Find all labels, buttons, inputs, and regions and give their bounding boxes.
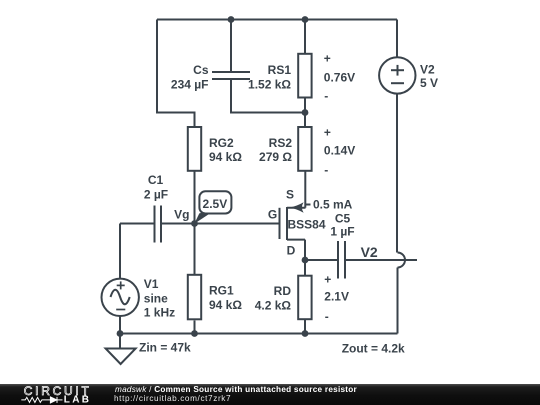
wire V1 bottom lead (119, 316, 121, 334)
resistor RG1 (188, 275, 201, 320)
svg-text:0.76V: 0.76V (324, 70, 355, 84)
resistor RG2 value label (209, 136, 242, 164)
capacitor Cs (212, 72, 250, 79)
wire V2 top lead (396, 20, 398, 58)
svg-text:2.5V: 2.5V (203, 197, 228, 211)
wire bottom rail (120, 333, 398, 335)
svg-text:5 V: 5 V (420, 76, 438, 90)
ground (106, 334, 136, 365)
resistor RG2 (188, 127, 201, 171)
node dot Vg (191, 220, 198, 227)
voltage annotation RS2 0.14V (324, 125, 355, 176)
resistor RS2 (298, 127, 311, 171)
wire top rail (157, 19, 397, 21)
node dot RS1 bottom (302, 109, 309, 116)
svg-text:V2: V2 (420, 63, 435, 77)
svg-text:2 µF: 2 µF (144, 188, 168, 202)
svg-text:RS1: RS1 (268, 63, 292, 77)
svg-text:2.1V: 2.1V (324, 290, 349, 304)
svg-text:LAB: LAB (64, 394, 91, 405)
svg-text:-: - (324, 89, 328, 103)
footer logo squiggle resistor and diode (21, 397, 62, 403)
svg-text:Zout = 4.2k: Zout = 4.2k (342, 341, 405, 355)
wire RS1 bottom lead (304, 98, 306, 113)
svg-text:RG2: RG2 (209, 136, 234, 150)
svg-text:RG1: RG1 (209, 284, 234, 298)
resistor RG1 value label (209, 284, 242, 312)
wire RG2 bottom lead to Vg (194, 171, 196, 224)
resistor RS1 value label (248, 63, 291, 92)
wire RS2 top lead (304, 113, 306, 128)
wire Cs bottom to RS2 top (231, 79, 305, 113)
transistor Q1 source arrow (290, 202, 304, 213)
capacitor C5 (338, 241, 345, 279)
svg-text:V1: V1 (144, 277, 159, 291)
svg-text:94 kΩ: 94 kΩ (209, 298, 242, 312)
resistor RD value label (255, 284, 292, 313)
node dot V1 bottom (117, 330, 124, 337)
node dot RD bottom (302, 330, 309, 337)
wire RS1 top lead (304, 20, 306, 55)
svg-text:S: S (286, 187, 294, 201)
wire RG1 top lead (194, 224, 196, 275)
svg-text:Vg: Vg (174, 207, 189, 221)
wire Vg to gate (161, 223, 279, 225)
svg-text:C1: C1 (148, 173, 164, 187)
svg-text:RS2: RS2 (269, 136, 293, 150)
voltage annotation RS1 0.76V (324, 52, 355, 103)
capacitor C5 value label (330, 211, 354, 238)
svg-text:+: + (324, 125, 331, 139)
capacitor Cs value label (171, 63, 209, 92)
wire drain to node (304, 240, 306, 260)
wire V2 bottom lead lower part (397, 268, 399, 334)
svg-text:0.14V: 0.14V (324, 144, 355, 158)
wire V2 bottom lead upper part (396, 94, 398, 253)
node dot drain output (302, 257, 309, 264)
resistor RS2 value label (259, 136, 292, 164)
voltage source V1 sine (102, 279, 139, 316)
wire hop over output (398, 253, 406, 268)
wire RD bottom lead (304, 319, 306, 334)
wire Cs top lead (230, 20, 232, 73)
svg-text:sine: sine (144, 291, 168, 305)
voltage source V2 label (420, 63, 438, 91)
wire RD top lead (304, 260, 306, 276)
svg-text:+: + (324, 273, 331, 287)
svg-text:279 Ω: 279 Ω (259, 150, 292, 164)
svg-text:0.5 mA: 0.5 mA (313, 197, 353, 211)
svg-text:-: - (324, 163, 328, 177)
svg-text:BSS84: BSS84 (288, 217, 326, 231)
voltage annotation RD 2.1V (324, 273, 349, 324)
svg-text:C5: C5 (335, 211, 351, 225)
svg-text:1 µF: 1 µF (330, 224, 354, 238)
svg-text:http://circuitlab.com/ct7zrk7: http://circuitlab.com/ct7zrk7 (114, 394, 231, 403)
resistor RD (298, 276, 311, 320)
svg-text:94 kΩ: 94 kΩ (209, 150, 242, 164)
wire left drop from top rail (157, 20, 195, 128)
svg-text:madswk / Commen Source with un: madswk / Commen Source with unattached s… (115, 385, 358, 394)
svg-text:1 kHz: 1 kHz (144, 305, 175, 319)
node dot top rail at RS1 (302, 16, 309, 23)
svg-text:Cs: Cs (193, 63, 209, 77)
wire left drop to V1 (119, 224, 121, 279)
svg-text:G: G (268, 207, 277, 221)
node Vg voltage callout 2.5V (194, 191, 231, 224)
svg-text:V2: V2 (361, 244, 378, 260)
svg-text:234 µF: 234 µF (171, 77, 209, 91)
current annotation 0.5 mA (306, 197, 353, 211)
svg-text:1.52 kΩ: 1.52 kΩ (248, 77, 291, 91)
capacitor C1 (155, 206, 162, 243)
svg-text:Zin = 47k: Zin = 47k (139, 341, 191, 355)
svg-text:D: D (287, 243, 296, 257)
wire RS2 bottom to source (304, 171, 306, 208)
node dot RG1 bottom (191, 330, 198, 337)
voltage source V2 (379, 57, 415, 93)
capacitor C1 value label (144, 173, 168, 202)
wire RG1 bottom lead (194, 321, 196, 334)
voltage source V1 label (144, 277, 175, 320)
wire C1 left segment (120, 223, 154, 225)
resistor RS1 (298, 54, 311, 98)
transistor Q1 BSS84 PMOS (280, 207, 306, 240)
svg-text:+: + (324, 52, 331, 66)
svg-text:4.2 kΩ: 4.2 kΩ (255, 298, 292, 312)
wire C5 to open end (345, 259, 417, 261)
node dot top rail at Cs (228, 16, 235, 23)
svg-text:RD: RD (274, 284, 292, 298)
wire output node to C5 (305, 259, 338, 261)
svg-text:-: - (325, 310, 329, 324)
